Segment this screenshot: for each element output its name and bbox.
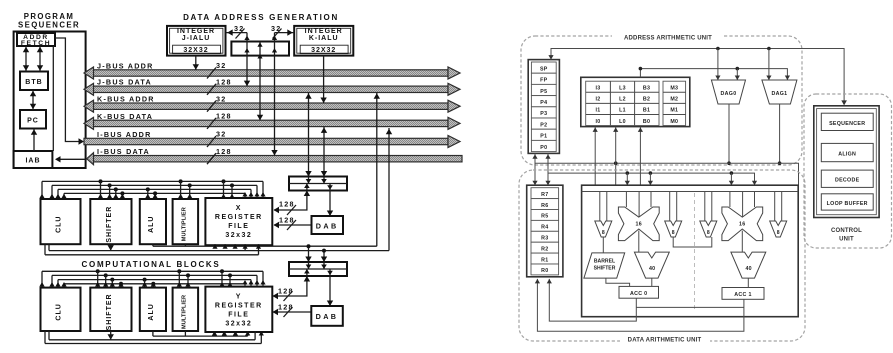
- ALU left (ACC 0 half): [595, 221, 612, 237]
- ALU right (ACC 1 half): [770, 221, 787, 237]
- svg-text:DECODE: DECODE: [835, 178, 860, 184]
- wire DAB X to X register file, 128: [274, 224, 312, 226]
- svg-text:128: 128: [279, 200, 295, 209]
- svg-text:128: 128: [278, 287, 294, 296]
- box DECODE: [821, 170, 873, 187]
- wire IAB to PC: [33, 129, 35, 152]
- wire multiplier to funnel (ACC 1 half): [741, 231, 743, 253]
- svg-text:K-BUS DATA: K-BUS DATA: [97, 112, 153, 121]
- svg-text:UNIT: UNIT: [839, 237, 854, 243]
- wire AAU lower horizontal: [640, 69, 787, 80]
- wire ADDR FETCH down internal: [52, 46, 54, 151]
- svg-text:REGISTER: REGISTER: [215, 303, 263, 310]
- svg-text:DAB: DAB: [316, 222, 339, 231]
- trapezoid DAG1: [762, 80, 797, 104]
- box IAB: [14, 151, 53, 168]
- svg-text:MULTIPLIER: MULTIPLIER: [181, 295, 187, 329]
- svg-text:128: 128: [216, 78, 232, 87]
- svg-text:ALU: ALU: [148, 216, 155, 233]
- svg-text:SHIFTER: SHIFTER: [106, 206, 113, 243]
- wire J-IALU to exchange, 32: [226, 32, 248, 34]
- box CLU (Y row): [41, 288, 81, 331]
- svg-text:I0: I0: [595, 119, 600, 125]
- svg-text:40: 40: [745, 266, 752, 272]
- accumulator funnel 40 (ACC 1 half): [731, 252, 766, 278]
- svg-text:I1: I1: [595, 108, 600, 114]
- wire R stack top feeds: [534, 163, 536, 185]
- box ACC 0: [619, 286, 659, 298]
- svg-text:128: 128: [216, 112, 232, 121]
- wire ALU to barrel shifter: [602, 237, 604, 253]
- svg-text:32X32: 32X32: [183, 47, 208, 54]
- wire DAG0 output down: [728, 104, 730, 163]
- multiplier array (ACC 1 half): [722, 207, 763, 241]
- box control unit core: [814, 106, 879, 218]
- svg-text:FP: FP: [540, 78, 548, 84]
- wire exchange column 1 to J-BUS DATA: [246, 33, 248, 87]
- svg-text:R0: R0: [541, 268, 548, 274]
- svg-text:ALIGN: ALIGN: [838, 152, 856, 158]
- wires over Y computational row: [39, 269, 265, 287]
- svg-text:J-BUS DATA: J-BUS DATA: [97, 78, 152, 87]
- svg-text:CLU: CLU: [56, 216, 63, 233]
- wire funnel to ACC 1: [747, 278, 749, 287]
- svg-text:BARREL: BARREL: [594, 259, 615, 265]
- wire I-BUS DATA to IAB: [57, 158, 86, 160]
- svg-text:SEQUENCER: SEQUENCER: [18, 21, 80, 30]
- box P register stack: [528, 60, 559, 154]
- wire crossbar Y feed right: [323, 251, 325, 262]
- svg-text:L2: L2: [619, 97, 626, 103]
- svg-text:8: 8: [602, 230, 605, 236]
- wire ADDR FETCH to BTB left: [25, 46, 27, 72]
- wire crossbar X to DAB X: [329, 191, 331, 217]
- svg-text:P2: P2: [540, 122, 547, 128]
- svg-text:REGISTER: REGISTER: [215, 214, 263, 221]
- wire K-IALU to K-BUS ADDR: [323, 56, 325, 103]
- wire AAU upper horizontal to sequencer: [551, 49, 844, 105]
- svg-text:32: 32: [271, 24, 282, 33]
- box memory crossbar (X): [289, 177, 347, 191]
- wire interconnect rail A: [535, 153, 799, 185]
- svg-text:R3: R3: [541, 236, 548, 242]
- bus K-BUS DATA: [84, 112, 460, 130]
- svg-text:PC: PC: [27, 118, 39, 125]
- wire ADDR FETCH to BTB right: [39, 46, 41, 72]
- ALU left (ACC 1 half): [700, 221, 717, 237]
- bus J-BUS ADDR: [84, 61, 460, 79]
- svg-text:32x32: 32x32: [225, 321, 252, 328]
- box SHIFTER (Y row): [90, 288, 131, 331]
- bus K-BUS ADDR: [84, 94, 460, 112]
- svg-text:INTEGER: INTEGER: [305, 28, 343, 35]
- svg-text:32X32: 32X32: [311, 47, 336, 54]
- svg-text:P3: P3: [540, 111, 547, 117]
- wire DAU internal top rail: [582, 191, 799, 193]
- svg-text:CONTROL: CONTROL: [831, 228, 862, 234]
- svg-text:40: 40: [649, 266, 656, 272]
- trapezoid DAG0: [711, 80, 745, 104]
- box ALU (X row): [140, 199, 166, 244]
- wire index table feeds: [594, 127, 596, 186]
- svg-text:Y: Y: [236, 294, 242, 301]
- box ALU (Y row): [140, 288, 166, 331]
- svg-text:16: 16: [739, 221, 746, 227]
- svg-text:32: 32: [216, 61, 227, 70]
- box CLU (X row): [41, 199, 81, 244]
- svg-text:B2: B2: [643, 97, 650, 103]
- svg-text:I-BUS DATA: I-BUS DATA: [97, 147, 150, 156]
- svg-text:BTB: BTB: [25, 79, 42, 86]
- svg-text:I-BUS ADDR: I-BUS ADDR: [97, 130, 152, 139]
- wire ACC 0 to ACC 1 link: [636, 306, 744, 308]
- svg-text:K-BUS ADDR: K-BUS ADDR: [97, 95, 155, 104]
- box memory crossbar (Y): [289, 262, 347, 276]
- box DAB (Y): [311, 306, 343, 326]
- wire funnel to ACC 0: [651, 278, 653, 286]
- svg-text:8: 8: [777, 230, 780, 236]
- svg-text:ACC 0: ACC 0: [630, 291, 647, 297]
- ALU right (ACC 0 half): [665, 221, 682, 237]
- svg-text:SHIFTER: SHIFTER: [594, 266, 616, 272]
- box SEQUENCER: [821, 113, 873, 130]
- svg-text:LOOP BUFFER: LOOP BUFFER: [827, 201, 868, 207]
- box SHIFTER (X row): [90, 199, 131, 244]
- box BTB: [20, 72, 48, 91]
- svg-text:COMPUTATIONAL BLOCKS: COMPUTATIONAL BLOCKS: [82, 260, 221, 269]
- svg-text:R2: R2: [541, 246, 548, 252]
- box MULTIPLIER (X row): [173, 199, 199, 244]
- svg-text:8: 8: [707, 230, 710, 236]
- svg-text:L3: L3: [619, 86, 626, 92]
- svg-text:SP: SP: [540, 66, 548, 72]
- wire exchange column 3 to I-BUS DATA: [274, 33, 276, 156]
- svg-text:32: 32: [216, 130, 227, 139]
- wire ACC 0 to R stack return: [549, 279, 636, 321]
- svg-text:M2: M2: [670, 97, 678, 103]
- svg-text:J-IALU: J-IALU: [182, 35, 211, 42]
- dashed box ADDRESS ARITHMETIC UNIT: [521, 36, 802, 165]
- wire ADDR FETCH to I-BUS ADDR: [55, 38, 82, 142]
- wire crossbar X to X register file, 128: [274, 191, 307, 211]
- svg-text:I3: I3: [595, 86, 600, 92]
- wire crossbar Y to Y register file, 128: [273, 276, 307, 296]
- svg-text:B0: B0: [643, 119, 650, 125]
- bus J-BUS DATA: [84, 78, 460, 96]
- svg-text:R7: R7: [541, 192, 548, 198]
- svg-text:DAB: DAB: [316, 312, 339, 321]
- wire inner ALUs join: [673, 237, 712, 247]
- wire BTB to PC: [32, 90, 34, 110]
- bus I-BUS DATA: [87, 147, 462, 165]
- svg-text:INTEGER: INTEGER: [177, 28, 215, 35]
- dashed divider between MAC halves: [694, 193, 696, 310]
- wire DAG0 inputs: [717, 49, 719, 81]
- wire crossbar Y to DAB Y: [329, 276, 331, 306]
- svg-text:32: 32: [234, 24, 245, 33]
- wire J-BUS DATA down to crossbar X: [308, 93, 310, 177]
- wire crossbar Y feed left: [308, 246, 310, 262]
- box MULTIPLIER (Y row): [173, 288, 199, 331]
- box ALIGN: [821, 143, 873, 161]
- box PC: [20, 110, 46, 129]
- wire J-IALU to J-BUS ADDR: [195, 56, 197, 70]
- box INTEGER J-IALU: [167, 26, 226, 56]
- svg-text:32: 32: [216, 94, 227, 103]
- svg-text:ADDRESS ARITHMETIC UNIT: ADDRESS ARITHMETIC UNIT: [624, 36, 712, 42]
- wire ACC 1 to R stack return: [537, 279, 744, 331]
- box X REGISTER FILE: [205, 198, 272, 245]
- box Y REGISTER FILE: [205, 287, 272, 332]
- dashed box DATA ARITHMETIC UNIT: [519, 170, 805, 341]
- svg-text:128: 128: [216, 147, 232, 156]
- box ADDR FETCH: [17, 33, 55, 46]
- svg-text:K-IALU: K-IALU: [309, 35, 339, 42]
- wire barrel shifter to ACC 0: [606, 278, 630, 286]
- barrel shifter: [584, 253, 625, 278]
- svg-text:32x32: 32x32: [225, 232, 252, 239]
- box R register stack: [527, 185, 563, 277]
- input stubs (ACC 0 half): [599, 192, 601, 222]
- wire multiplier to funnel (ACC 0 half): [638, 231, 640, 253]
- wire exchange column 2 to K-BUS DATA: [259, 42, 261, 121]
- svg-text:ACC 1: ACC 1: [734, 292, 751, 298]
- svg-text:128: 128: [278, 303, 294, 312]
- wires under Y computational row: [45, 331, 264, 344]
- svg-text:M3: M3: [670, 86, 678, 92]
- svg-text:DATA ADDRESS GENERATION: DATA ADDRESS GENERATION: [183, 13, 339, 22]
- wires under X computational row: [45, 93, 392, 255]
- svg-text:8: 8: [672, 230, 675, 236]
- wire DAG1 input from upper rail: [768, 49, 770, 81]
- svg-text:SHIFTER: SHIFTER: [106, 293, 113, 330]
- svg-text:X: X: [236, 205, 242, 212]
- svg-text:M0: M0: [670, 119, 678, 125]
- svg-text:DAG1: DAG1: [771, 91, 787, 97]
- input stubs (ACC 1 half): [704, 192, 706, 222]
- svg-text:P0: P0: [540, 145, 547, 151]
- svg-text:SEQUENCER: SEQUENCER: [829, 121, 865, 127]
- svg-text:P4: P4: [540, 100, 547, 106]
- svg-text:L0: L0: [619, 119, 626, 125]
- svg-text:DAG0: DAG0: [721, 91, 737, 97]
- wire K-BUS DATA down to crossbar X: [323, 127, 325, 177]
- svg-text:CLU: CLU: [56, 303, 63, 320]
- box DAB (X): [312, 216, 344, 234]
- svg-text:IAB: IAB: [25, 158, 40, 165]
- wire K-IALU to exchange, 32: [275, 32, 295, 34]
- dashed box CONTROL UNIT: [804, 94, 892, 248]
- svg-text:R1: R1: [541, 257, 548, 263]
- box ACC 1: [722, 288, 764, 300]
- svg-text:P5: P5: [540, 89, 547, 95]
- accumulator funnel 40 (ACC 0 half): [634, 252, 669, 278]
- svg-text:J-BUS ADDR: J-BUS ADDR: [97, 61, 154, 70]
- box program sequencer outline: [14, 32, 86, 169]
- box INTEGER K-IALU: [294, 26, 353, 56]
- svg-text:R6: R6: [541, 203, 548, 209]
- wire DAB Y to Y register file, 128: [273, 311, 311, 313]
- svg-text:L1: L1: [619, 108, 626, 114]
- svg-text:B1: B1: [643, 108, 650, 114]
- svg-text:16: 16: [636, 221, 643, 227]
- box LOOP BUFFER: [821, 194, 873, 210]
- svg-text:P1: P1: [540, 134, 547, 140]
- box IALU exchange: [231, 42, 289, 56]
- box index register table: [581, 77, 690, 126]
- wire interconnect rail B: [548, 153, 755, 185]
- svg-text:B3: B3: [643, 86, 650, 92]
- svg-text:ALU: ALU: [148, 303, 155, 320]
- svg-text:MULTIPLIER: MULTIPLIER: [181, 207, 187, 241]
- svg-text:M1: M1: [670, 108, 678, 114]
- svg-text:I2: I2: [595, 97, 600, 103]
- box DAU core: [582, 185, 799, 317]
- svg-text:R4: R4: [541, 225, 548, 231]
- multiplier array (ACC 0 half): [618, 207, 659, 241]
- svg-text:R5: R5: [541, 214, 548, 220]
- svg-text:FILE: FILE: [228, 223, 249, 230]
- svg-text:FILE: FILE: [228, 312, 249, 319]
- wires over X computational row: [39, 179, 265, 199]
- bus I-BUS ADDR: [84, 130, 460, 148]
- wire DAG1 output down: [779, 104, 781, 163]
- svg-text:DATA ARITHMETIC UNIT: DATA ARITHMETIC UNIT: [628, 338, 702, 344]
